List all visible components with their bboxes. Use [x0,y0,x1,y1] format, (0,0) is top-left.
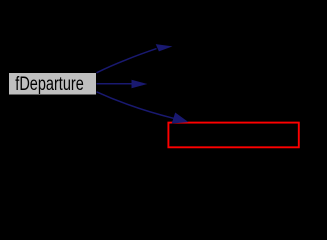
node fDeparture (box) [9,73,97,96]
arrowhead of top edge [156,44,173,51]
svg-text:fDeparture: fDeparture [15,74,84,95]
edge to bottom red node (wire) [97,92,174,119]
edge to top callee (wire) [97,49,157,73]
arrowhead of middle edge [132,80,148,88]
arrowhead of bottom edge [172,113,189,124]
edge to middle callee (wire) [97,83,134,85]
truncated callee node (red box) [168,123,298,148]
